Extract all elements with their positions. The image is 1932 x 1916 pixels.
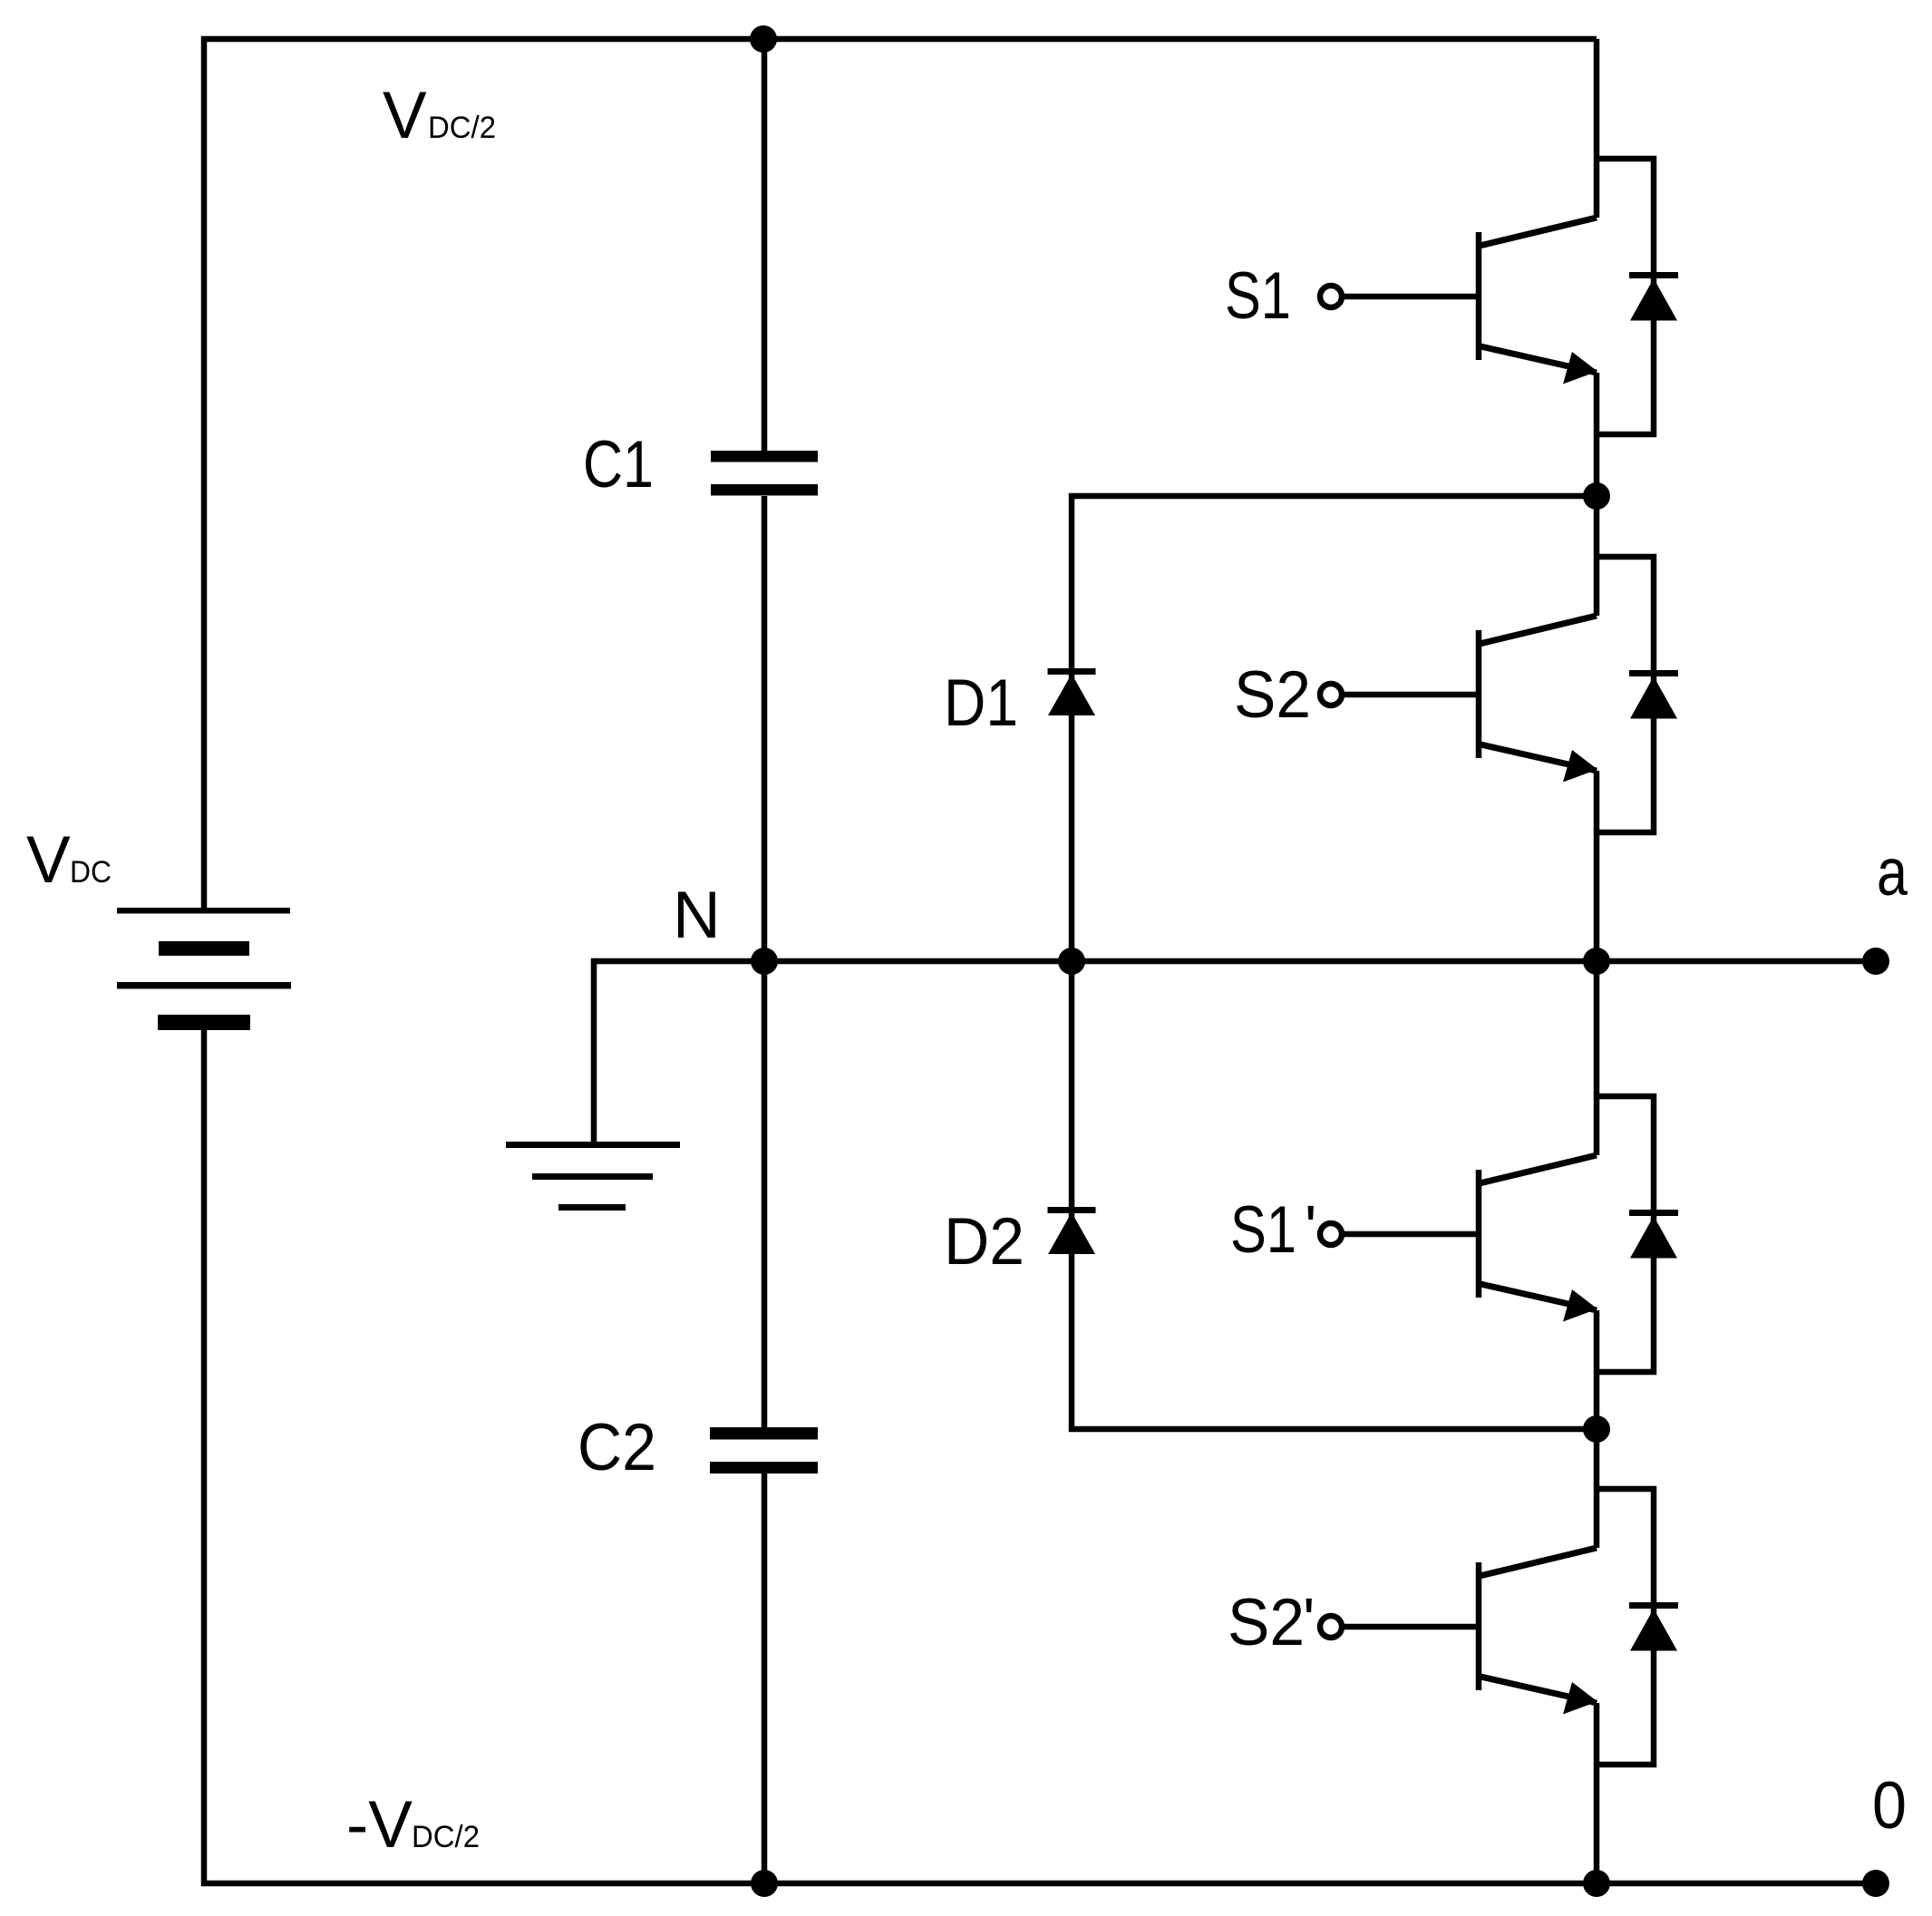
svg-text:V: V: [383, 79, 427, 152]
svg-text:N: N: [673, 879, 721, 952]
svg-text:DC: DC: [70, 855, 112, 890]
svg-text:DC/2: DC/2: [428, 111, 496, 145]
svg-text:': ': [1303, 1585, 1315, 1656]
svg-text:DC/2: DC/2: [412, 1820, 480, 1854]
svg-text:V: V: [26, 823, 71, 897]
svg-text:S1: S1: [1225, 259, 1291, 333]
svg-text:a: a: [1877, 836, 1908, 909]
svg-text:S2: S2: [1234, 658, 1311, 732]
svg-text:-V: -V: [346, 1788, 413, 1862]
svg-text:D1: D1: [944, 666, 1018, 740]
svg-text:C2: C2: [578, 1411, 656, 1484]
svg-text:0: 0: [1872, 1769, 1907, 1843]
svg-text:S1: S1: [1230, 1193, 1296, 1267]
svg-text:': ': [1305, 1192, 1316, 1263]
svg-text:S2: S2: [1228, 1586, 1305, 1659]
svg-text:D2: D2: [944, 1205, 1024, 1279]
svg-text:C1: C1: [583, 428, 654, 501]
